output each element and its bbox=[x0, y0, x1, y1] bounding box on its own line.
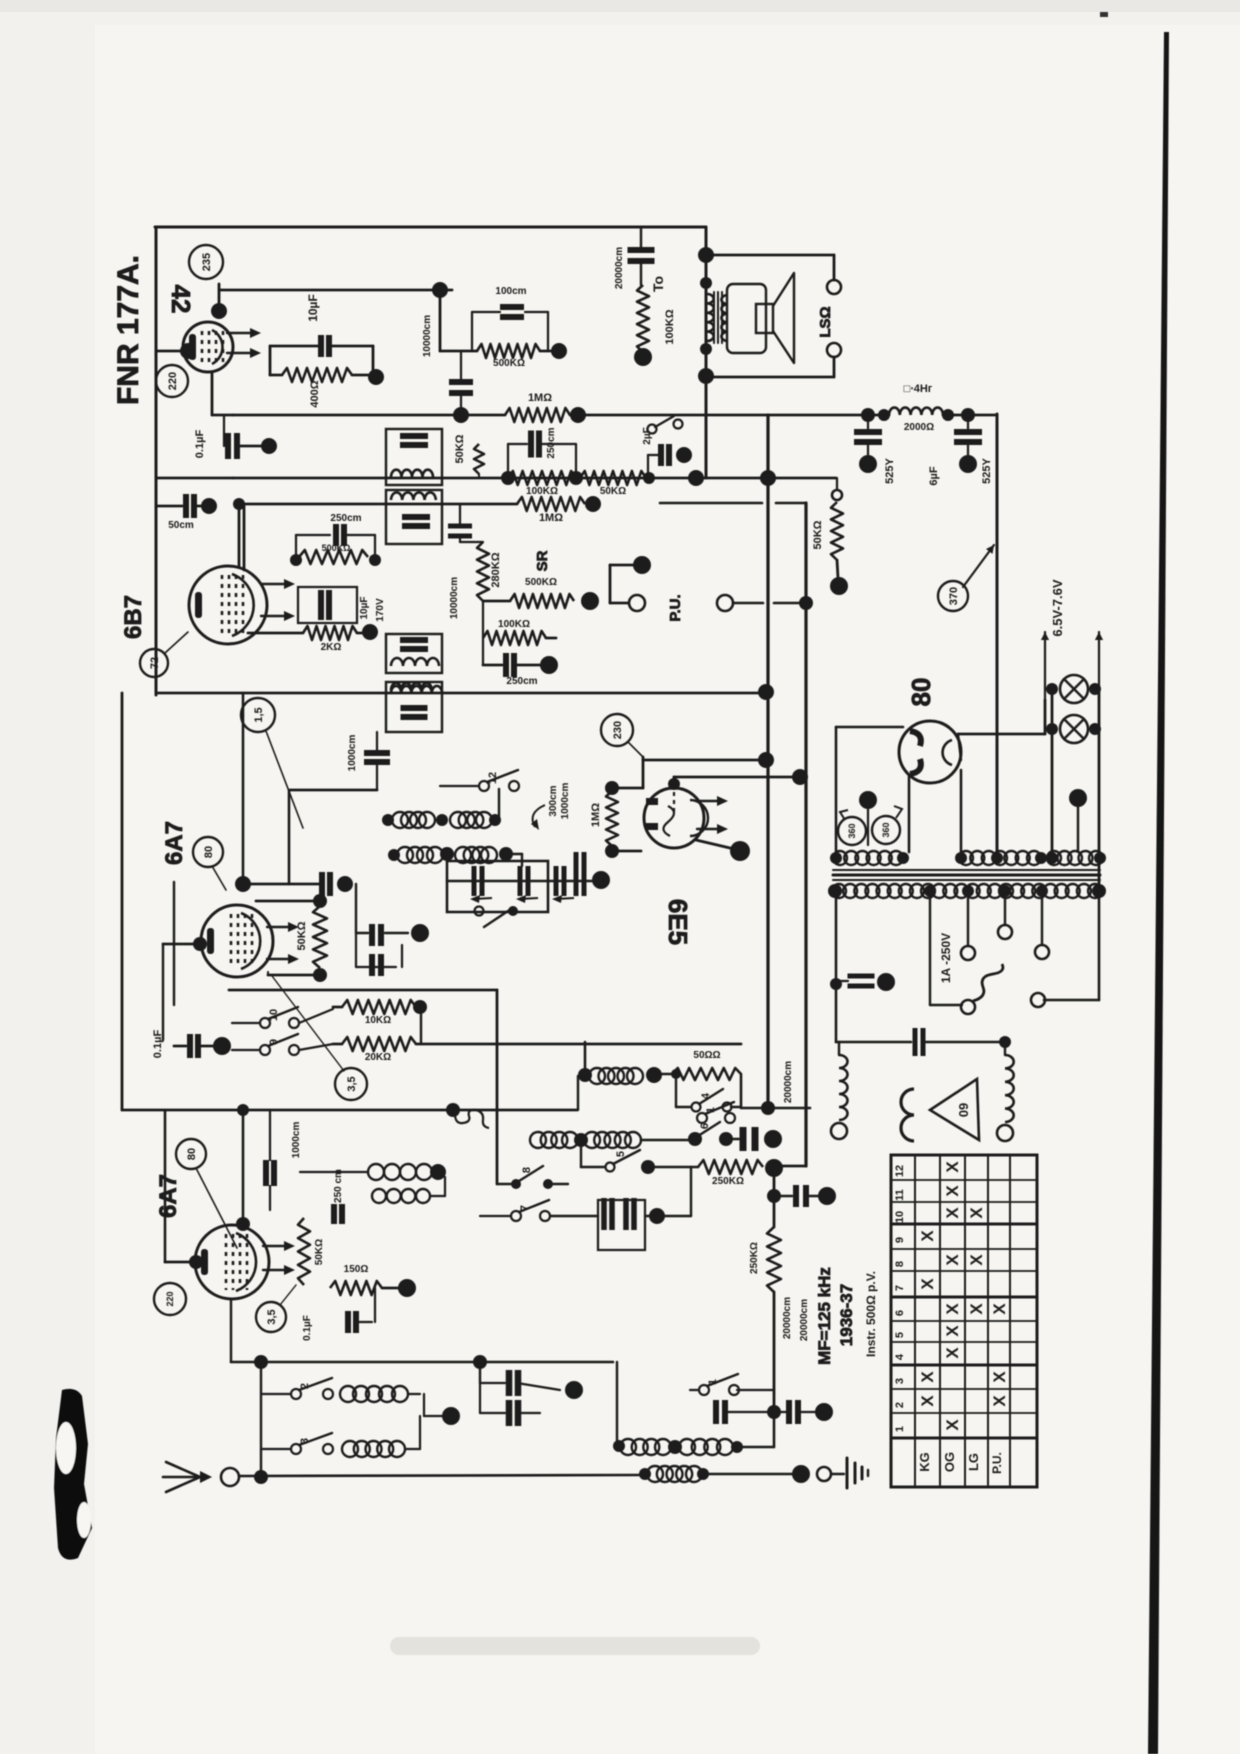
wire r901 bbox=[256, 900, 316, 903]
wire padder h2 bbox=[385, 932, 408, 934]
node 230g bbox=[601, 714, 633, 746]
speaker cone bbox=[773, 273, 794, 363]
node ts a bbox=[924, 885, 936, 897]
wire tp8 stem bbox=[1077, 806, 1079, 852]
svg-text:50KΩ: 50KΩ bbox=[296, 921, 308, 950]
wire 80 pin2b bbox=[958, 734, 961, 760]
node 360 c bbox=[859, 791, 877, 809]
node sw1 cap bbox=[815, 1403, 833, 1421]
resistor 1M ge bbox=[606, 791, 618, 846]
switch tone bbox=[648, 416, 683, 434]
svg-text:20000cm: 20000cm bbox=[799, 1299, 810, 1341]
wire sw9 l bbox=[232, 1049, 260, 1051]
wire cbus r bbox=[808, 1195, 819, 1197]
svg-text:X: X bbox=[943, 1185, 962, 1197]
node 1M det bbox=[585, 496, 601, 512]
node frame bl bbox=[237, 1104, 249, 1116]
node sw6 b bbox=[719, 1132, 733, 1146]
node rail bus1 bbox=[760, 470, 776, 486]
wire fld l bbox=[838, 1042, 840, 1055]
svg-text:6A7: 6A7 bbox=[155, 1174, 182, 1218]
svg-text:360: 360 bbox=[847, 823, 857, 838]
svg-text:6A7: 6A7 bbox=[161, 821, 188, 865]
wire LS right bot bbox=[833, 357, 836, 377]
capacitor 10uF 170V bbox=[321, 590, 329, 620]
wire heater b bbox=[1095, 632, 1103, 700]
wire c01m lead bbox=[198, 1045, 214, 1048]
wire row1 corner bbox=[584, 1042, 587, 1073]
terminal LS1 bbox=[827, 280, 841, 294]
svg-text:X: X bbox=[943, 1325, 962, 1337]
wire ge5 pin bbox=[673, 777, 676, 786]
svg-text:6.5V-7.6V: 6.5V-7.6V bbox=[1050, 579, 1065, 636]
svg-text:250cm: 250cm bbox=[330, 513, 361, 524]
wire 280K top bbox=[460, 541, 483, 543]
node h1362 a bbox=[254, 1355, 268, 1369]
node To mid bbox=[700, 277, 712, 289]
svg-text:1936-37: 1936-37 bbox=[837, 1284, 856, 1346]
wire 250b r bbox=[514, 664, 541, 667]
core To a bbox=[713, 292, 715, 343]
resistor 100K slant bbox=[637, 285, 649, 352]
node co5 bbox=[440, 847, 454, 861]
node 360b bbox=[872, 816, 900, 844]
wire ge5 h2 bbox=[612, 787, 643, 790]
svg-text:20000cm: 20000cm bbox=[614, 247, 625, 289]
wire det rail bbox=[244, 503, 517, 506]
wire c01 drop bbox=[223, 415, 225, 446]
wire B+ rail mid bbox=[570, 414, 889, 417]
node 50Km b bbox=[313, 968, 327, 982]
terminal tap3 bbox=[998, 925, 1012, 939]
wire 80 pin2 bbox=[960, 770, 963, 852]
svg-text:3: 3 bbox=[894, 1378, 906, 1384]
node To top bbox=[698, 247, 714, 263]
switch 6 lever bbox=[698, 1122, 720, 1136]
node tp2 bbox=[897, 852, 909, 864]
svg-text:1MΩ: 1MΩ bbox=[590, 803, 602, 827]
resistor 20K bbox=[342, 1037, 416, 1051]
wire co corner2 bbox=[521, 854, 523, 866]
capacitor row2 bbox=[743, 1127, 755, 1151]
node row1 a bbox=[578, 1068, 592, 1082]
wire blk frame l bbox=[471, 312, 473, 351]
wire cc h3 bbox=[480, 1412, 505, 1414]
wire row1 rv bbox=[740, 1074, 743, 1107]
node capd bbox=[453, 407, 469, 423]
svg-text:X: X bbox=[943, 1161, 962, 1173]
resistor 10K bbox=[342, 1000, 416, 1014]
node 100K end bbox=[634, 348, 652, 366]
terminal PU gnd bbox=[629, 595, 645, 611]
wire sr lead bbox=[483, 600, 510, 603]
bus2 top a bbox=[660, 502, 762, 505]
node 250b bbox=[540, 656, 558, 674]
core To c bbox=[721, 292, 723, 343]
capacitor psu2 bbox=[915, 1028, 923, 1056]
node rf1 bbox=[501, 471, 515, 485]
tube V6 6A7 osc bbox=[195, 1225, 295, 1299]
wire row1 lv bbox=[675, 1074, 677, 1107]
svg-text:7: 7 bbox=[894, 1285, 906, 1291]
wire padder bh bbox=[356, 966, 396, 968]
switch 4 bbox=[692, 1089, 732, 1112]
wire rf loop rv bbox=[575, 444, 577, 478]
capacitor 10000cm bbox=[449, 382, 473, 393]
wire c1000 stub2 bbox=[269, 1186, 271, 1210]
wire tap2 bbox=[967, 891, 969, 946]
node padder bbox=[411, 924, 429, 942]
wire sw1b l bbox=[690, 1389, 699, 1391]
core c bbox=[833, 879, 1100, 881]
node ts d bbox=[1036, 885, 1048, 897]
capacitor 1000cm bbox=[364, 753, 390, 762]
bracket 360b bbox=[894, 806, 902, 818]
wire mains rail l bbox=[156, 477, 233, 480]
capacitor 20000 a bbox=[796, 1185, 806, 1207]
wire mains rail bbox=[233, 477, 836, 480]
svg-text:8: 8 bbox=[894, 1261, 906, 1267]
svg-text:525Y: 525Y bbox=[981, 457, 993, 483]
terminal fuse a bbox=[961, 1000, 975, 1014]
node 2uF bbox=[676, 447, 692, 463]
svg-text:10: 10 bbox=[894, 1211, 906, 1223]
wire LS right top bbox=[833, 255, 836, 280]
capacitor 0.1uF bbox=[228, 433, 237, 459]
IF box3 bbox=[386, 634, 442, 673]
node gnd bbox=[792, 1465, 810, 1483]
svg-text:250KΩ: 250KΩ bbox=[712, 1176, 744, 1187]
node sw5 b bbox=[641, 1160, 655, 1174]
tube V4 arrows bbox=[697, 796, 728, 834]
svg-text:To: To bbox=[650, 276, 666, 292]
wire psu right bbox=[1098, 891, 1101, 1000]
coil field L bbox=[839, 1055, 848, 1120]
node tp3 bbox=[955, 852, 967, 864]
node x243 bbox=[235, 876, 251, 892]
capacitor IF4 bbox=[401, 708, 428, 717]
capacitor 250cm det bbox=[506, 653, 514, 677]
svg-text:2: 2 bbox=[299, 1383, 311, 1389]
node blk bbox=[432, 282, 448, 298]
core To b bbox=[717, 292, 719, 343]
wire 1000 stem bbox=[376, 732, 378, 752]
node choke l bbox=[878, 409, 890, 421]
node psu l bbox=[830, 978, 842, 990]
wire r975 bbox=[268, 974, 316, 977]
svg-text:0.1µF: 0.1µF bbox=[302, 1315, 313, 1341]
node ge5 h bbox=[758, 752, 774, 768]
wire 1020 rv bbox=[420, 1007, 422, 1044]
wire blk lead bbox=[440, 350, 477, 353]
svg-text:9: 9 bbox=[268, 1039, 280, 1045]
node 80 mid bbox=[193, 837, 223, 867]
terminal aux bbox=[717, 595, 733, 611]
switch 10 bbox=[260, 1007, 299, 1028]
node c6b bbox=[959, 455, 977, 473]
svg-text:1,5: 1,5 bbox=[253, 707, 265, 722]
wire tap1b bbox=[930, 1004, 962, 1006]
wire sw4 l bbox=[676, 1106, 691, 1108]
switch 7 bbox=[511, 1200, 550, 1221]
node 72 bbox=[140, 649, 168, 677]
tube V4 6E5 bbox=[644, 788, 708, 848]
switch 11 gang bbox=[475, 907, 484, 916]
node ant coil r bbox=[697, 1468, 709, 1480]
wire sw10 r bbox=[299, 1009, 333, 1023]
wire rf loop r bbox=[539, 443, 576, 445]
wire 150 r bbox=[382, 1287, 398, 1290]
wire h1108 bbox=[741, 1107, 810, 1110]
svg-text:10KΩ: 10KΩ bbox=[365, 1015, 391, 1026]
node 220 osc bbox=[154, 1283, 186, 1315]
gang box bbox=[447, 861, 548, 912]
wire v231 bbox=[230, 1300, 232, 1362]
node co3 bbox=[489, 814, 501, 826]
resistor 250K v bbox=[767, 1227, 781, 1292]
wire LS bot bbox=[706, 376, 834, 379]
svg-text:1000cm: 1000cm bbox=[560, 783, 571, 820]
svg-text:10µF: 10µF bbox=[306, 294, 320, 322]
svg-text:2KΩ: 2KΩ bbox=[321, 642, 342, 653]
wire 2uF stub2 bbox=[648, 454, 658, 456]
wire ge5 v bbox=[642, 757, 645, 788]
coil osc1b bbox=[450, 812, 492, 828]
pointer 3.5 osc bbox=[280, 1285, 296, 1305]
wire co osc2v bbox=[444, 1177, 446, 1196]
wire osc v289 bbox=[288, 790, 291, 884]
svg-text:OG: OG bbox=[942, 1452, 957, 1472]
node lamp1r bbox=[1089, 683, 1101, 695]
wire pu h1 bbox=[610, 564, 634, 567]
wire osc h bbox=[290, 789, 377, 792]
coil sw2 bbox=[340, 1386, 408, 1402]
wire bias right bbox=[352, 374, 368, 377]
svg-text:X: X bbox=[967, 1207, 986, 1219]
wire bias lead bbox=[270, 374, 282, 377]
coil osc1a bbox=[392, 812, 435, 828]
choke D-4H bbox=[889, 408, 943, 415]
resistor 100K rf bbox=[508, 471, 576, 485]
svg-text:12: 12 bbox=[894, 1165, 906, 1177]
node To mid2 bbox=[700, 343, 712, 355]
node bus1 top bbox=[758, 684, 774, 700]
coil IF5 bbox=[391, 683, 432, 690]
wire co corner bbox=[506, 853, 522, 855]
coil IF3 bbox=[391, 658, 439, 666]
switch 2 bbox=[291, 1378, 333, 1399]
coil IF2 bbox=[391, 492, 436, 500]
wire osc lv bbox=[164, 1110, 167, 1262]
scan streak bottom bbox=[390, 1637, 760, 1655]
node 150 bbox=[398, 1279, 416, 1297]
bus2 tail bbox=[773, 1412, 776, 1447]
svg-text:X: X bbox=[967, 1303, 986, 1315]
capacitor 250cm rf bbox=[531, 431, 539, 458]
node ts l bbox=[828, 884, 842, 898]
wire osc lh bbox=[165, 1261, 196, 1264]
wire LS top bbox=[706, 254, 834, 257]
svg-text:230: 230 bbox=[612, 721, 624, 739]
svg-text:4: 4 bbox=[700, 1092, 712, 1099]
wire h1362 bbox=[231, 1361, 613, 1364]
capacitor IF1 bbox=[400, 436, 428, 445]
wire sw1 caps bbox=[724, 1411, 789, 1413]
wire heater h bbox=[958, 733, 1045, 736]
node fld r bbox=[999, 1036, 1011, 1048]
coil row2 a bbox=[530, 1132, 578, 1148]
capacitor 20000cm bbox=[628, 250, 655, 261]
node sw6 a bbox=[688, 1132, 702, 1146]
wire 100Kd r bbox=[546, 637, 556, 640]
wire anode rail bbox=[220, 289, 452, 292]
resistor 100K det bbox=[483, 631, 546, 645]
switch 3 bbox=[291, 1433, 333, 1454]
resistor 500K fb bbox=[299, 550, 368, 564]
node c01 bbox=[261, 438, 277, 454]
svg-text:50KΩ: 50KΩ bbox=[812, 520, 824, 549]
wire cathode left bbox=[156, 350, 186, 353]
wire rf loop lv bbox=[507, 444, 509, 478]
node c6a bbox=[859, 455, 877, 473]
resistor 500K sr bbox=[510, 594, 574, 608]
wire cc v bbox=[479, 1362, 481, 1383]
svg-text:360: 360 bbox=[881, 822, 891, 837]
node cpair bbox=[649, 1208, 665, 1224]
node row2 a bbox=[574, 1133, 588, 1147]
node tp1 bbox=[830, 852, 842, 864]
wire 2k lead bbox=[248, 632, 303, 635]
pointer 72 bbox=[165, 632, 188, 653]
capacitor 50cm bbox=[186, 494, 194, 518]
node cbus j bbox=[767, 1189, 781, 1203]
node 80 osc bbox=[176, 1139, 206, 1169]
scan blob bottom left bbox=[54, 1389, 92, 1560]
capacitor 250cm fb bbox=[336, 524, 344, 546]
capacitor padder1 bbox=[372, 924, 381, 946]
wire cap20k stem2 bbox=[640, 261, 642, 285]
node rail x696 bbox=[688, 470, 704, 486]
svg-text:1000cm: 1000cm bbox=[347, 735, 358, 772]
wire blk drop bbox=[439, 290, 442, 351]
capacitor pair box bbox=[598, 1200, 645, 1250]
triangle 60 bbox=[930, 1079, 979, 1140]
svg-text:LSΩ: LSΩ bbox=[817, 306, 834, 337]
terminal psu r bbox=[1031, 993, 1045, 1007]
wire pu v bbox=[609, 565, 612, 603]
wire c01 lead bbox=[237, 445, 262, 448]
node bota l bbox=[613, 1440, 625, 1452]
wire v3 left bbox=[163, 943, 201, 946]
wire row2 h bbox=[641, 1139, 691, 1142]
wire sw2 stub bbox=[261, 1393, 291, 1395]
svg-text:1MΩ: 1MΩ bbox=[528, 392, 552, 404]
svg-text:72: 72 bbox=[149, 657, 161, 669]
wire det drop bbox=[243, 504, 246, 570]
node v3 left bbox=[193, 937, 207, 951]
svg-text:10000cm: 10000cm bbox=[422, 315, 433, 357]
wire box r bbox=[645, 1215, 691, 1217]
switch 12 bbox=[479, 770, 519, 791]
node ts r bbox=[1092, 884, 1106, 898]
svg-text:500KΩ: 500KΩ bbox=[322, 543, 351, 553]
capacitor 01 osc bbox=[348, 1311, 356, 1333]
wire fb r bbox=[344, 534, 375, 536]
wire v261 bbox=[260, 1362, 262, 1477]
wire right frame v bbox=[705, 227, 708, 478]
capacitor sw1 b bbox=[789, 1400, 798, 1424]
node ge5 d bbox=[792, 769, 808, 785]
svg-text:X: X bbox=[918, 1395, 937, 1407]
wire bias left bbox=[269, 346, 272, 375]
svg-text:60: 60 bbox=[956, 1103, 971, 1117]
lamp L2 bbox=[1060, 715, 1088, 743]
svg-text:1: 1 bbox=[707, 1379, 719, 1385]
coil osc4 bbox=[372, 1189, 430, 1203]
coil ant bbox=[647, 1466, 702, 1482]
wire heater c bbox=[1051, 689, 1054, 852]
frame mid left bbox=[121, 693, 124, 1110]
tube V2 6B7 bbox=[189, 566, 295, 644]
tube V1 42 bbox=[183, 322, 261, 372]
wire osc top bbox=[242, 1110, 245, 1222]
bus2 down bbox=[773, 1168, 776, 1227]
svg-text:400Ω: 400Ω bbox=[309, 380, 321, 407]
svg-text:50KΩ: 50KΩ bbox=[314, 1239, 325, 1265]
wire padder lv bbox=[355, 933, 357, 967]
node rail c2 bbox=[961, 408, 975, 422]
wire cc rv bbox=[517, 1412, 540, 1414]
wire sw6 r bbox=[730, 1138, 739, 1140]
svg-text:3,5: 3,5 bbox=[266, 1309, 278, 1324]
coil curl bbox=[455, 1110, 489, 1128]
wire 6B7 bottom rail bbox=[156, 692, 766, 695]
node sr bbox=[581, 592, 599, 610]
capacitor gang 2 bbox=[520, 866, 528, 896]
wire cc h bbox=[480, 1382, 505, 1384]
node 3.5 mid bbox=[335, 1068, 367, 1100]
svg-text:8: 8 bbox=[521, 1167, 533, 1173]
switch 8 bbox=[511, 1166, 553, 1189]
node rail c1 bbox=[861, 408, 875, 422]
wire 50K stub bbox=[836, 478, 838, 490]
wire blk top1 bbox=[472, 311, 500, 313]
svg-text:1: 1 bbox=[894, 1426, 906, 1432]
node lamp2l bbox=[1046, 723, 1058, 735]
node co4 bbox=[388, 849, 400, 861]
wire c6b bbox=[967, 415, 969, 432]
node co2 bbox=[436, 814, 448, 826]
wire sw10 l bbox=[232, 1022, 260, 1024]
node c01m bbox=[213, 1037, 231, 1055]
svg-text:500KΩ: 500KΩ bbox=[525, 577, 557, 588]
svg-text:100cm: 100cm bbox=[495, 286, 526, 297]
wire v3 lv bbox=[162, 944, 164, 1040]
wire padder rv bbox=[401, 945, 403, 967]
svg-text:SR: SR bbox=[534, 550, 551, 571]
svg-text:X: X bbox=[990, 1395, 1009, 1407]
core a bbox=[833, 869, 1100, 871]
node bot a bbox=[668, 1440, 682, 1454]
capacitor gang 3 bbox=[556, 866, 564, 896]
wire bot r bbox=[740, 1446, 774, 1448]
wire sw7 r bbox=[550, 1215, 598, 1217]
svg-text:3: 3 bbox=[299, 1438, 311, 1444]
transformer primary b bbox=[959, 851, 1041, 865]
wire sw12 bbox=[440, 785, 479, 787]
antenna bbox=[163, 1462, 212, 1492]
svg-text:5: 5 bbox=[615, 1151, 627, 1157]
